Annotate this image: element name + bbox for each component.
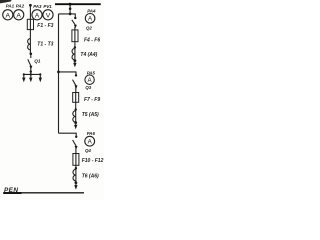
node bbox=[23, 73, 25, 75]
svg-text:PA1: PA1 bbox=[6, 4, 15, 9]
ammeter PA5 bbox=[85, 75, 94, 84]
svg-text:F1 - F3: F1 - F3 bbox=[37, 23, 53, 29]
node bbox=[69, 13, 72, 16]
feeder arrow 3 bbox=[74, 183, 77, 190]
node bbox=[39, 73, 41, 75]
svg-text:T1 - T3: T1 - T3 bbox=[37, 42, 53, 48]
current transformer T4 bbox=[72, 48, 75, 60]
switch Q4 blade bbox=[73, 140, 77, 146]
wire bbox=[29, 30, 31, 39]
wire bbox=[30, 66, 32, 74]
ammeter PA6 bbox=[85, 136, 95, 146]
wire T-split bbox=[24, 73, 41, 75]
switch Q1 blade bbox=[30, 54, 32, 58]
fuse F10-F12 bbox=[73, 154, 79, 166]
svg-text:Q4: Q4 bbox=[85, 148, 91, 153]
node bbox=[74, 59, 77, 62]
svg-text:T4 (A4): T4 (A4) bbox=[80, 52, 97, 58]
feeder arrow 1 bbox=[73, 61, 76, 67]
node bbox=[74, 121, 77, 124]
switch Q1 lower contact arrow bbox=[29, 66, 32, 70]
svg-text:F4 - F6: F4 - F6 bbox=[84, 38, 100, 44]
current transformer T6 bbox=[73, 169, 76, 182]
wire bbox=[74, 27, 76, 30]
svg-text:PV1: PV1 bbox=[43, 4, 52, 9]
node bbox=[30, 73, 32, 75]
fuse F4-F6 bbox=[72, 30, 78, 42]
wire bbox=[75, 165, 77, 169]
svg-text:PA3: PA3 bbox=[33, 4, 42, 9]
fuse F1-F3 bbox=[27, 19, 33, 29]
svg-text:A: A bbox=[6, 12, 11, 19]
current transformer T5 bbox=[73, 111, 76, 123]
node bbox=[75, 181, 78, 184]
svg-text:PA2: PA2 bbox=[16, 4, 25, 9]
svg-text:PA6: PA6 bbox=[87, 131, 96, 136]
node bbox=[74, 17, 76, 19]
svg-text:A: A bbox=[16, 12, 21, 19]
svg-text:T5 (A5): T5 (A5) bbox=[82, 112, 99, 118]
node bbox=[30, 70, 32, 72]
switch Q3 blade bbox=[73, 80, 77, 86]
node: riser tap 2 bbox=[57, 71, 60, 74]
riser wire (vertical distribution line) bbox=[58, 14, 60, 133]
node bbox=[75, 167, 77, 169]
node bbox=[69, 7, 72, 10]
node bbox=[74, 46, 76, 48]
svg-text:F7 - F9: F7 - F9 bbox=[84, 97, 100, 103]
wire: header to branch 1 bbox=[59, 14, 76, 18]
current transformer T1-T3 bbox=[28, 39, 31, 54]
svg-text:PA4: PA4 bbox=[87, 9, 96, 14]
svg-text:Q3: Q3 bbox=[85, 85, 91, 90]
wire meter column bbox=[29, 5, 31, 19]
svg-text:PA5: PA5 bbox=[87, 70, 96, 75]
outgoing arrow middle bbox=[29, 74, 32, 82]
node: meter column top bbox=[29, 4, 32, 7]
ammeter PA1 bbox=[3, 10, 13, 20]
wire: branch 2 header bbox=[59, 72, 77, 75]
node: bus tap bbox=[69, 3, 72, 6]
wire drop from bus bbox=[69, 4, 71, 14]
wire bbox=[75, 148, 77, 154]
voltmeter PV1 bbox=[43, 10, 53, 20]
svg-text:V: V bbox=[46, 12, 51, 19]
svg-text:T6 (A6): T6 (A6) bbox=[82, 173, 99, 179]
ammeter PA3 bbox=[32, 10, 42, 20]
outgoing arrow right bbox=[39, 74, 42, 82]
ammeter PA2 bbox=[14, 10, 24, 20]
node bbox=[75, 136, 77, 138]
wire bbox=[75, 88, 77, 93]
switch Q2 blade bbox=[72, 20, 76, 25]
scan artifact smudge top-left bbox=[0, 0, 12, 3]
fuse F7-F9 bbox=[73, 93, 79, 103]
svg-text:F10 - F12: F10 - F12 bbox=[82, 158, 104, 164]
node bbox=[75, 108, 77, 110]
node bbox=[30, 53, 33, 56]
feeder arrow 2 bbox=[74, 123, 77, 130]
wire: branch 3 header bbox=[59, 133, 77, 137]
outgoing arrow left bbox=[22, 74, 25, 82]
bus PEN (bottom) bbox=[3, 192, 21, 194]
supply bus (top) bbox=[55, 3, 101, 5]
node bbox=[75, 74, 77, 76]
wire bbox=[74, 42, 76, 49]
svg-text:A: A bbox=[35, 12, 40, 19]
svg-text:Q2: Q2 bbox=[86, 26, 92, 31]
ammeter PA4 bbox=[85, 13, 95, 23]
svg-text:Q1: Q1 bbox=[34, 59, 41, 64]
wire bbox=[75, 102, 77, 110]
